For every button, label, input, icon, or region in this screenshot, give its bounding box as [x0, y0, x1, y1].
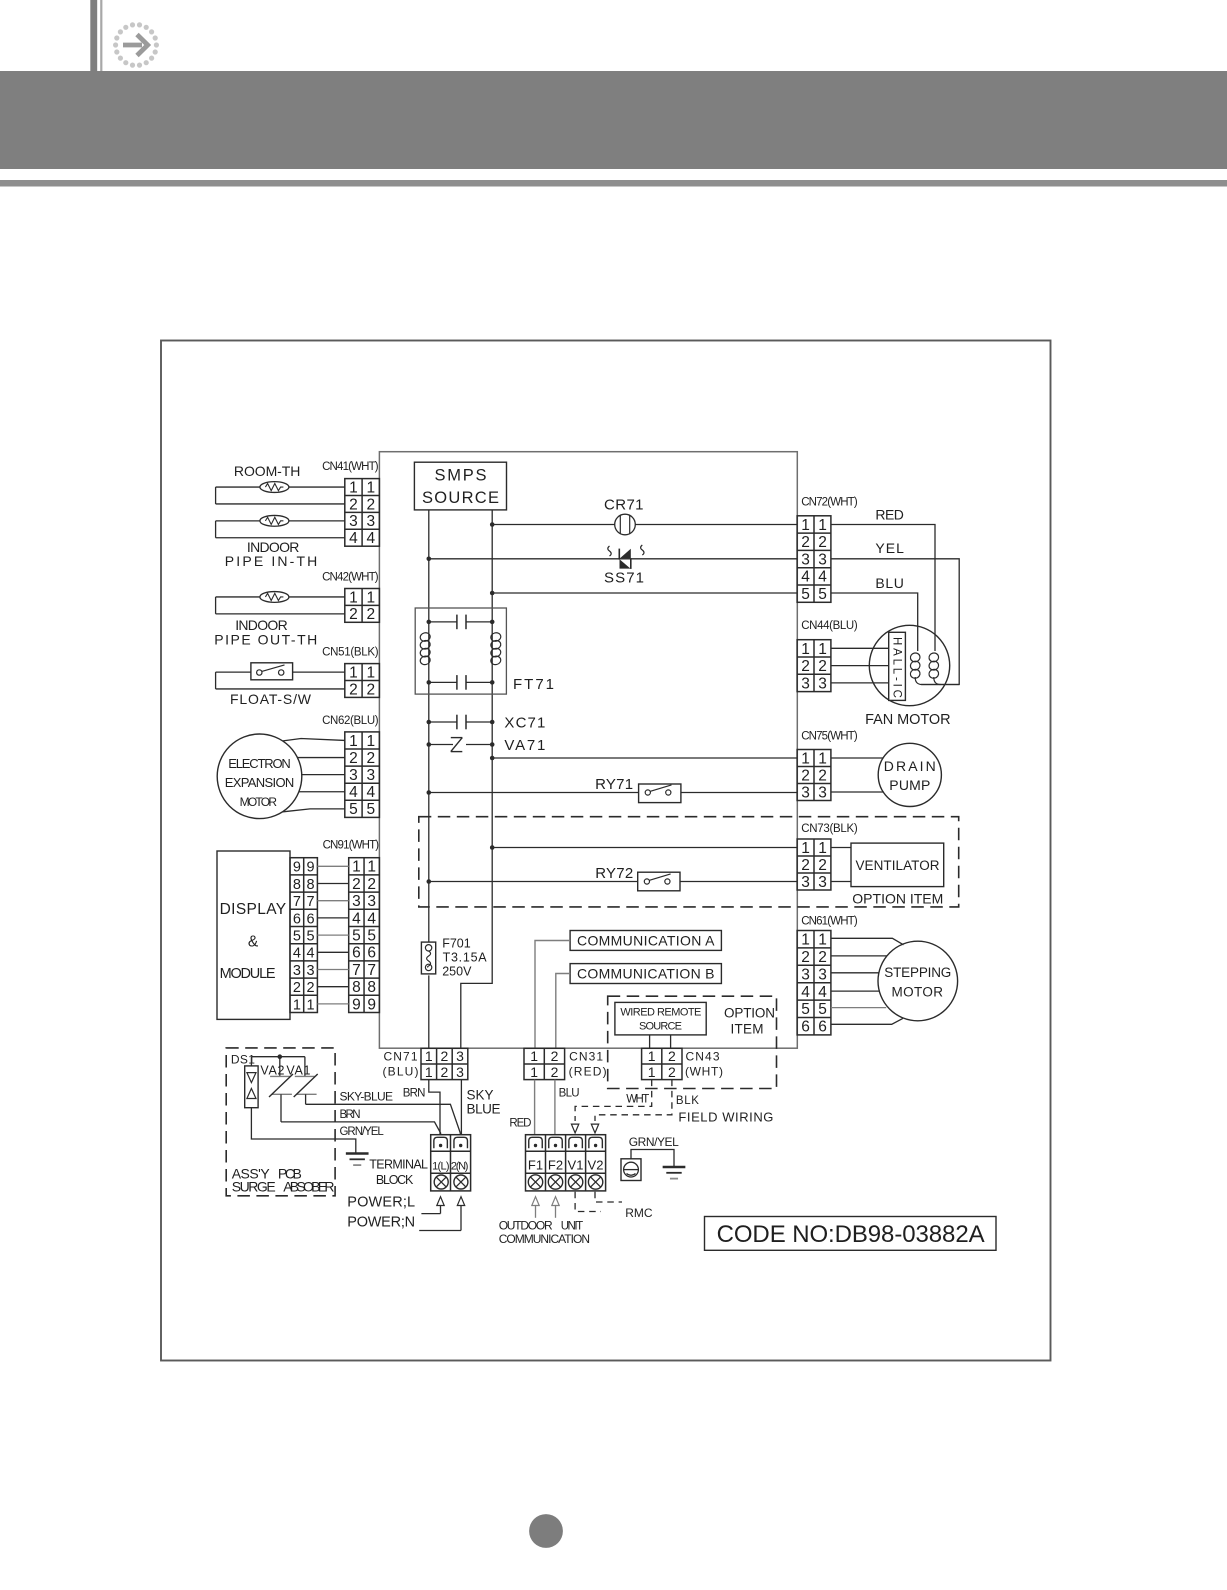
- svg-text:2: 2: [349, 606, 358, 623]
- svg-text:4: 4: [307, 946, 315, 962]
- svg-text:2: 2: [801, 658, 810, 675]
- svg-text:2: 2: [367, 876, 376, 893]
- svg-text:3: 3: [349, 767, 358, 784]
- wire: EEM to CN62 pin3: [302, 774, 345, 776]
- svg-text:1: 1: [366, 733, 375, 750]
- svg-text:1: 1: [648, 1064, 656, 1080]
- svg-text:9: 9: [367, 996, 376, 1013]
- svg-text:1: 1: [801, 750, 810, 767]
- svg-text:GRN/YEL: GRN/YEL: [629, 1135, 679, 1149]
- svg-text:4: 4: [366, 530, 375, 547]
- relay RY71: [639, 784, 681, 803]
- svg-text:SOURCE: SOURCE: [639, 1021, 682, 1033]
- svg-text:8: 8: [293, 877, 301, 893]
- svg-text:2: 2: [818, 534, 827, 551]
- svg-text:COMMUNICATION B: COMMUNICATION B: [577, 966, 715, 982]
- svg-text:1: 1: [818, 641, 827, 658]
- svg-text:STEPPING: STEPPING: [884, 965, 951, 980]
- connector CN72: [797, 516, 831, 603]
- svg-text:CR71: CR71: [604, 497, 644, 514]
- svg-text:FIELD WIRING: FIELD WIRING: [678, 1110, 773, 1125]
- svg-text:CN31: CN31: [569, 1050, 603, 1064]
- svg-text:1: 1: [425, 1064, 433, 1080]
- svg-text:3: 3: [801, 675, 810, 692]
- svg-text:PUMP: PUMP: [889, 777, 930, 793]
- PCB outline: [379, 452, 797, 1048]
- wire: BRN from CN71 pin1: [429, 1080, 440, 1135]
- wire: EEM to CN62 pin1: [283, 739, 345, 741]
- svg-text:CN75(WHT): CN75(WHT): [801, 731, 858, 743]
- svg-text:8: 8: [307, 877, 315, 893]
- svg-text:3: 3: [801, 784, 810, 801]
- wire: display to CN91 ribbon: [317, 865, 348, 867]
- svg-text:F1: F1: [528, 1158, 543, 1173]
- arrow outdoor comm F1: [532, 1197, 539, 1206]
- bidirectional thyristor SS71: [608, 545, 644, 569]
- svg-text:1: 1: [801, 641, 810, 658]
- svg-text:VA71: VA71: [504, 737, 545, 754]
- header thin vertical bar: [100, 0, 102, 71]
- svg-text:OUTDOOR: OUTDOOR: [499, 1219, 553, 1233]
- svg-text:1: 1: [349, 589, 358, 606]
- svg-text:6: 6: [367, 945, 376, 962]
- svg-text:EXPANSION: EXPANSION: [225, 775, 295, 790]
- wire: CN61 pin3 to stepping: [831, 972, 879, 974]
- wire: WHT dashed from CN43 pin1: [575, 1080, 652, 1121]
- wire: CN61 pin6 to stepping: [831, 1018, 903, 1024]
- svg-text:CN43: CN43: [686, 1050, 720, 1064]
- varistor VA1: [304, 1057, 306, 1077]
- wire: CN44 pin2 to hall: [831, 665, 889, 667]
- svg-text:CN42(WHT): CN42(WHT): [322, 572, 379, 584]
- svg-text:2: 2: [352, 876, 361, 893]
- motor M1 electron expansion: [217, 734, 302, 819]
- wire: line to CN72 pin5: [492, 592, 797, 594]
- svg-text:RY71: RY71: [595, 776, 633, 793]
- svg-text:BRN: BRN: [340, 1109, 361, 1121]
- connector CN71: [421, 1048, 468, 1079]
- hall IC block: [889, 632, 906, 700]
- svg-text:3: 3: [456, 1048, 464, 1064]
- terminal block (outdoor unit): [526, 1135, 606, 1191]
- wire: left bus below fuse: [428, 975, 430, 1048]
- svg-text:CN91(WHT): CN91(WHT): [323, 839, 380, 851]
- svg-text:3: 3: [456, 1064, 464, 1080]
- svg-text:2: 2: [441, 1048, 449, 1064]
- svg-text:1: 1: [530, 1048, 538, 1064]
- option item dashed box (wired remote): [608, 996, 777, 1088]
- fan motor coil right: [928, 652, 939, 663]
- wired remote source block: [615, 1002, 706, 1035]
- svg-text:SOURCE: SOURCE: [422, 489, 499, 507]
- svg-text:F701: F701: [442, 937, 471, 951]
- fan motor coil left: [909, 652, 920, 663]
- svg-text:3: 3: [818, 784, 827, 801]
- thermal cutout CR71: [615, 514, 636, 535]
- svg-text:7: 7: [367, 962, 376, 979]
- connector CN91: [349, 858, 380, 1013]
- svg-text:4: 4: [801, 984, 810, 1001]
- svg-text:5: 5: [801, 1001, 810, 1018]
- connector CN75: [797, 750, 831, 801]
- svg-text:5: 5: [367, 928, 376, 945]
- svg-text:PIPE OUT-TH: PIPE OUT-TH: [214, 632, 317, 648]
- svg-text:DISPLAY: DISPLAY: [220, 901, 287, 918]
- svg-text:SKY: SKY: [467, 1088, 494, 1103]
- svg-text:RY72: RY72: [595, 865, 633, 882]
- display module pin header: [290, 858, 317, 1013]
- svg-text:1: 1: [530, 1064, 538, 1080]
- svg-text:1: 1: [818, 932, 827, 949]
- diagram frame: [161, 341, 1051, 1361]
- svg-text:2: 2: [551, 1048, 559, 1064]
- arrow outdoor comm F2: [552, 1197, 559, 1206]
- svg-text:FLOAT-S/W: FLOAT-S/W: [230, 691, 312, 707]
- svg-text:(WHT): (WHT): [685, 1065, 723, 1079]
- svg-text:TERMINAL: TERMINAL: [369, 1158, 428, 1172]
- float switch FLOAT-S/W: [216, 671, 345, 673]
- svg-text:2: 2: [366, 496, 375, 513]
- svg-text:3: 3: [307, 963, 315, 979]
- connector CN42: [345, 589, 380, 623]
- wire: RY72 line to CN73 pin3: [429, 881, 638, 883]
- svg-text:ABSOBER: ABSOBER: [283, 1179, 334, 1195]
- svg-text:CODE NO:DB98-03882A: CODE NO:DB98-03882A: [717, 1221, 985, 1248]
- svg-text:5: 5: [352, 928, 361, 945]
- svg-text:2: 2: [801, 857, 810, 874]
- thermistor ROOM-TH: [216, 486, 345, 488]
- svg-text:6: 6: [818, 1019, 827, 1036]
- display module block: [217, 851, 290, 1019]
- svg-text:BLUE: BLUE: [467, 1102, 501, 1117]
- svg-text:2: 2: [818, 857, 827, 874]
- wire: EEM to CN62 pin4: [299, 791, 345, 793]
- svg-text:VA2: VA2: [260, 1063, 284, 1077]
- svg-text:4: 4: [367, 910, 376, 927]
- svg-text:1: 1: [366, 589, 375, 606]
- svg-text:6: 6: [352, 945, 361, 962]
- connector CN51: [345, 664, 380, 698]
- svg-text:BLU: BLU: [559, 1088, 580, 1100]
- svg-text:1: 1: [648, 1048, 656, 1064]
- page number dot: [529, 1514, 563, 1548]
- svg-text:RMC: RMC: [625, 1206, 653, 1220]
- svg-text:5: 5: [366, 801, 375, 818]
- svg-text:CN44(BLU): CN44(BLU): [801, 620, 858, 632]
- wire: CN61 pin4 to stepping: [831, 990, 879, 992]
- wire: POWER N line: [419, 1230, 461, 1232]
- wire: left bus from SMPS: [428, 510, 430, 943]
- wire: EEM to CN62 pin5: [283, 809, 345, 812]
- svg-text:FT71: FT71: [513, 676, 554, 693]
- SMPS source block: [414, 462, 506, 510]
- svg-text:MODULE: MODULE: [220, 966, 276, 982]
- svg-text:1(L): 1(L): [432, 1161, 450, 1173]
- svg-text:2: 2: [349, 750, 358, 767]
- svg-text:F2: F2: [548, 1158, 563, 1173]
- svg-text:2: 2: [801, 767, 810, 784]
- thermistor INDOOR PIPE OUT-TH: [216, 596, 345, 598]
- wire: BLU to fan motor: [831, 593, 918, 651]
- svg-text:1: 1: [801, 517, 810, 534]
- svg-text:4: 4: [366, 784, 375, 801]
- svg-text:CN72(WHT): CN72(WHT): [801, 497, 858, 509]
- svg-text:1: 1: [366, 665, 375, 682]
- svg-text:&: &: [248, 934, 259, 951]
- wire: wired remote to CN43 pin2: [670, 1035, 672, 1048]
- svg-text:4: 4: [349, 530, 358, 547]
- svg-text:2: 2: [818, 658, 827, 675]
- wire: RMC dashed from V1: [575, 1192, 601, 1212]
- svg-text:V2: V2: [588, 1158, 604, 1173]
- connector CN41: [345, 479, 380, 547]
- svg-text:5: 5: [349, 801, 358, 818]
- wire: POWER L line: [421, 1213, 440, 1215]
- svg-text:VA1: VA1: [286, 1063, 310, 1077]
- wire: EEM to CN62 pin2: [297, 757, 344, 759]
- svg-text:OPTION: OPTION: [724, 1006, 775, 1021]
- wire: line to CN73 pin1: [492, 847, 797, 849]
- arrow into V1: [571, 1124, 578, 1133]
- svg-text:1: 1: [352, 859, 361, 876]
- wire: SKY BLUE from CN71 pin3: [460, 1080, 462, 1135]
- wire: RY71 line to CN75 pin3: [429, 792, 639, 794]
- svg-text:DRAIN: DRAIN: [884, 758, 936, 774]
- svg-text:3: 3: [801, 966, 810, 983]
- option item dashed box (ventilator): [419, 817, 959, 907]
- svg-text:BLU: BLU: [875, 575, 904, 591]
- svg-text:7: 7: [352, 962, 361, 979]
- wire: CN75 pin1 to pump: [831, 757, 884, 759]
- svg-text:COMMUNICATION: COMMUNICATION: [499, 1232, 590, 1246]
- svg-text:XC71: XC71: [504, 715, 545, 732]
- header underline bar: [0, 180, 1227, 187]
- svg-text:9: 9: [352, 996, 361, 1013]
- svg-text:1: 1: [349, 479, 358, 496]
- svg-text:3: 3: [366, 767, 375, 784]
- arrow POWER N: [457, 1197, 464, 1206]
- page header band: [0, 71, 1227, 169]
- svg-text:YEL: YEL: [875, 540, 904, 556]
- svg-text:6: 6: [293, 911, 301, 927]
- connector CN43: [642, 1048, 682, 1079]
- svg-text:3: 3: [293, 963, 301, 979]
- svg-text:3: 3: [352, 893, 361, 910]
- wire: SS71 line to CN72 pin3: [429, 558, 797, 560]
- svg-text:2: 2: [441, 1064, 449, 1080]
- wire: RED to fan motor: [831, 525, 935, 652]
- wire: RMC dashed from V2: [595, 1192, 622, 1202]
- thermistor INDOOR PIPE IN-TH: [216, 520, 345, 522]
- svg-text:CN41(WHT): CN41(WHT): [322, 461, 379, 473]
- svg-text:PIPE IN-TH: PIPE IN-TH: [225, 553, 317, 569]
- svg-text:3: 3: [801, 551, 810, 568]
- motor fan: [869, 625, 949, 705]
- svg-text:5: 5: [818, 1001, 827, 1018]
- fuse F701: [421, 942, 435, 974]
- varistor VA71: [429, 744, 453, 746]
- connector CN44: [797, 640, 831, 692]
- wire: CN75 pin3 to pump: [831, 791, 884, 793]
- svg-text:9: 9: [307, 860, 315, 876]
- svg-text:SMPS: SMPS: [435, 467, 487, 485]
- svg-text:7: 7: [293, 894, 301, 910]
- communication B block: [570, 964, 721, 984]
- svg-text:3: 3: [367, 893, 376, 910]
- svg-text:ITEM: ITEM: [731, 1022, 764, 1037]
- node: junction dots on buses: [427, 522, 495, 884]
- communication A block: [570, 931, 721, 951]
- svg-text:2: 2: [818, 949, 827, 966]
- svg-text:1: 1: [818, 517, 827, 534]
- connector CN61: [797, 931, 831, 1035]
- svg-text:2: 2: [801, 534, 810, 551]
- svg-text:CN62(BLU): CN62(BLU): [322, 715, 379, 727]
- svg-text:4: 4: [349, 784, 358, 801]
- svg-text:4: 4: [818, 984, 827, 1001]
- ground (power): [346, 1152, 369, 1155]
- svg-text:5: 5: [801, 586, 810, 603]
- svg-text:3: 3: [818, 966, 827, 983]
- wire: CR71 line to CN72 pin1: [492, 524, 797, 526]
- svg-text:2: 2: [307, 980, 315, 996]
- svg-text:2: 2: [349, 681, 358, 698]
- svg-text:3: 3: [818, 551, 827, 568]
- svg-text:CN51(BLK): CN51(BLK): [322, 647, 379, 659]
- line filter FT71: [415, 608, 506, 694]
- svg-text:VENTILATOR: VENTILATOR: [856, 858, 940, 873]
- surge absorber dashed box: [226, 1048, 335, 1196]
- ground (earth): [663, 1166, 686, 1169]
- wire: surge top bus: [251, 1056, 305, 1058]
- wire: CN44 pin1 to hall: [831, 647, 889, 649]
- wire: line to CN75 pin1: [492, 757, 797, 759]
- svg-text:SURGE: SURGE: [232, 1179, 276, 1195]
- svg-text:GRN/YEL: GRN/YEL: [340, 1126, 385, 1138]
- svg-text:3: 3: [801, 874, 810, 891]
- svg-text:2: 2: [551, 1064, 559, 1080]
- svg-text:POWER;N: POWER;N: [347, 1215, 415, 1231]
- wire: comm A to CN31 pin1: [535, 941, 570, 1049]
- wire: SKY-BLUE from VA1: [306, 1104, 461, 1134]
- svg-text:POWER;L: POWER;L: [347, 1195, 415, 1211]
- svg-text:1: 1: [349, 733, 358, 750]
- svg-text:T3.15A: T3.15A: [443, 951, 488, 965]
- wire: right bus from SMPS: [461, 510, 492, 1048]
- svg-text:9: 9: [293, 860, 301, 876]
- svg-text:250V: 250V: [442, 964, 472, 978]
- svg-text:3: 3: [818, 874, 827, 891]
- svg-text:5: 5: [818, 586, 827, 603]
- wire: comm B to CN31 pin2: [556, 974, 570, 1049]
- header left vertical bar: [90, 0, 97, 71]
- wire: CN73 pin3 to ventilator: [831, 881, 851, 883]
- svg-text:BLK: BLK: [676, 1095, 699, 1107]
- svg-text:6: 6: [307, 911, 315, 927]
- svg-text:6: 6: [801, 1019, 810, 1036]
- earth screw terminal: [621, 1159, 641, 1181]
- wire: CN73 pin1 to ventilator: [831, 847, 851, 849]
- svg-text:2(N): 2(N): [451, 1161, 469, 1173]
- svg-text:RED: RED: [875, 506, 904, 522]
- svg-text:RED: RED: [509, 1118, 531, 1130]
- wire: GRN/YEL from DS1: [251, 1108, 355, 1154]
- wire: BRN from VA2: [281, 1122, 441, 1135]
- svg-text:CN73(BLK): CN73(BLK): [801, 823, 858, 835]
- svg-text:ROOM-TH: ROOM-TH: [234, 463, 301, 479]
- wire: CN61 pin2 to stepping: [831, 955, 887, 957]
- ventilator block: [851, 843, 944, 887]
- svg-text:1: 1: [293, 997, 301, 1013]
- svg-text:BRN: BRN: [403, 1088, 426, 1100]
- wire: YEL to fan motor: [831, 559, 959, 685]
- svg-text:2: 2: [349, 496, 358, 513]
- wire: RED from CN31 pin1: [534, 1080, 536, 1135]
- svg-text:FAN MOTOR: FAN MOTOR: [865, 712, 951, 728]
- svg-text:1: 1: [818, 750, 827, 767]
- svg-text:CN71: CN71: [384, 1050, 418, 1064]
- svg-text:UNIT: UNIT: [561, 1221, 584, 1233]
- wire: wired remote to CN43 pin1: [649, 1035, 651, 1048]
- svg-text:COMMUNICATION A: COMMUNICATION A: [577, 933, 715, 949]
- svg-text:ELECTRON: ELECTRON: [228, 756, 291, 771]
- motor stepping: [878, 941, 958, 1021]
- wire: CN61 pin1 to stepping: [831, 938, 904, 945]
- svg-text:7: 7: [307, 894, 315, 910]
- svg-text:4: 4: [801, 569, 810, 586]
- svg-text:1: 1: [367, 859, 376, 876]
- svg-text:SKY-BLUE: SKY-BLUE: [340, 1090, 394, 1104]
- svg-text:CN61(WHT): CN61(WHT): [801, 915, 858, 927]
- svg-text:8: 8: [367, 979, 376, 996]
- svg-text:4: 4: [818, 569, 827, 586]
- wire: CN61 pin5 to stepping: [831, 1007, 886, 1009]
- svg-text:4: 4: [352, 910, 361, 927]
- motor drain pump: [878, 743, 941, 806]
- svg-text:V1: V1: [568, 1158, 584, 1173]
- connector CN31: [524, 1048, 565, 1079]
- svg-text:(BLU): (BLU): [383, 1065, 419, 1079]
- svg-text:OPTION ITEM: OPTION ITEM: [852, 891, 943, 907]
- capacitor XC71: [429, 721, 457, 723]
- svg-text:(RED): (RED): [569, 1065, 607, 1079]
- wire: BLK dashed from CN43 pin2: [595, 1080, 672, 1121]
- svg-text:SS71: SS71: [604, 570, 644, 587]
- svg-text:BLOCK: BLOCK: [376, 1173, 414, 1187]
- svg-text:1: 1: [801, 840, 810, 857]
- svg-text:2: 2: [366, 606, 375, 623]
- svg-text:5: 5: [307, 929, 315, 945]
- svg-text:1: 1: [366, 479, 375, 496]
- svg-text:3: 3: [349, 513, 358, 530]
- svg-text:2: 2: [366, 750, 375, 767]
- svg-text:MOTOR: MOTOR: [240, 795, 278, 809]
- svg-text:WIRED REMOTE: WIRED REMOTE: [620, 1007, 701, 1019]
- svg-text:1: 1: [818, 840, 827, 857]
- svg-text:2: 2: [366, 681, 375, 698]
- svg-text:4: 4: [293, 946, 301, 962]
- svg-text:1: 1: [307, 997, 315, 1013]
- svg-text:3: 3: [366, 513, 375, 530]
- wire: CN44 pin3 to hall: [831, 682, 889, 684]
- terminal block (power): [431, 1135, 471, 1191]
- svg-text:2: 2: [668, 1048, 676, 1064]
- arrow POWER L: [437, 1197, 444, 1206]
- svg-text:WHT: WHT: [626, 1094, 649, 1106]
- svg-text:2: 2: [668, 1064, 676, 1080]
- svg-text:1: 1: [801, 932, 810, 949]
- relay RY72: [638, 872, 680, 891]
